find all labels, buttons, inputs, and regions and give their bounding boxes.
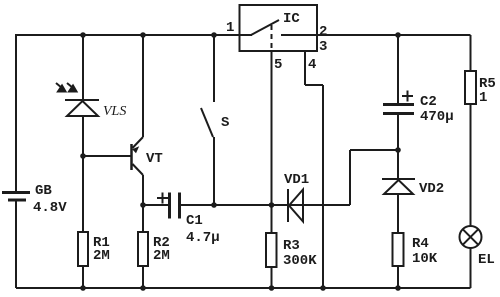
node top rail S	[211, 32, 217, 38]
wire top rail	[16, 34, 252, 36]
svg-text:2: 2	[319, 24, 327, 40]
resistor R3	[266, 233, 277, 267]
svg-text:VD2: VD2	[419, 181, 444, 197]
wire R4 bottom	[397, 266, 399, 288]
wire VLS branch upper	[82, 35, 84, 100]
node pin2 wire C2	[395, 32, 401, 38]
node bottom rail R2	[140, 285, 146, 291]
resistor R5	[465, 71, 476, 104]
wire pin2/3 to right rail	[317, 34, 471, 36]
wire VT base	[83, 155, 131, 157]
transistor VT	[130, 144, 133, 170]
svg-text:4.8V: 4.8V	[33, 200, 67, 216]
capacitor C2	[383, 105, 414, 114]
svg-text:C1: C1	[186, 213, 203, 229]
svg-text:4: 4	[308, 57, 316, 73]
wire VT emitter vertical	[142, 35, 144, 137]
node top rail VT	[140, 32, 146, 38]
wire right rail upper	[470, 35, 472, 71]
wire right rail middle	[470, 104, 472, 226]
VLS light arrows	[56, 83, 77, 92]
wire R1 bottom	[82, 266, 84, 288]
svg-text:C2: C2	[420, 94, 437, 110]
node C2 bottom	[395, 147, 401, 153]
svg-text:10K: 10K	[412, 251, 438, 267]
svg-text:2M: 2M	[93, 248, 110, 264]
svg-text:VD1: VD1	[284, 172, 309, 188]
svg-text:R3: R3	[283, 238, 300, 254]
wire bottom rail	[16, 287, 471, 289]
svg-text:5: 5	[274, 57, 282, 73]
wire C2 top	[397, 35, 399, 103]
IC internal dashed line	[271, 25, 273, 51]
C1 plus sign	[157, 193, 168, 204]
IC internal contact wire	[281, 34, 317, 36]
C2 plus sign	[402, 91, 413, 102]
capacitor C1	[170, 193, 180, 219]
wire IC pin4 down	[304, 51, 306, 85]
wire VT collector diagonal	[133, 164, 144, 175]
node S bottom	[211, 202, 217, 208]
resistor R2	[138, 232, 148, 266]
wire R3 bottom	[271, 267, 273, 288]
wire R2 bottom	[142, 266, 144, 288]
svg-text:1: 1	[226, 20, 234, 36]
svg-text:470µ: 470µ	[420, 109, 454, 125]
IC internal switch arm	[251, 20, 279, 35]
wire VLS branch lower to R1	[82, 116, 84, 232]
wire switch S top	[213, 35, 215, 102]
resistor R4	[393, 233, 404, 266]
node R3 top	[269, 202, 275, 208]
node bottom rail R3	[269, 285, 275, 291]
node base junction	[80, 153, 86, 159]
resistor R1	[78, 232, 88, 266]
svg-text:IC: IC	[283, 11, 300, 27]
node C1 left	[140, 202, 146, 208]
photodiode VLS	[65, 100, 99, 116]
node bottom rail R4	[395, 285, 401, 291]
svg-text:R4: R4	[412, 236, 429, 252]
diode VD2	[382, 179, 415, 194]
wire pin4 horizontal	[305, 84, 323, 86]
IC box U1	[240, 5, 318, 51]
wire VD2 to R4	[397, 194, 399, 233]
switch S	[201, 108, 213, 137]
node top rail VLS	[80, 32, 86, 38]
svg-text:VLS: VLS	[103, 104, 126, 119]
wire C2 bottom to VD2	[397, 115, 399, 179]
wire left rail lower	[15, 201, 17, 288]
wire switch S bottom	[213, 137, 215, 205]
wire left rail upper	[15, 34, 17, 191]
wire C1 right to VD1 to corner	[180, 204, 350, 206]
svg-text:3: 3	[319, 39, 327, 55]
svg-text:S: S	[221, 115, 229, 131]
svg-text:GB: GB	[35, 183, 52, 199]
wire to C2 node	[350, 149, 398, 151]
wire corner up	[349, 150, 351, 205]
svg-text:2M: 2M	[153, 248, 170, 264]
wire right rail lower	[470, 248, 472, 288]
svg-text:300K: 300K	[283, 253, 317, 269]
lamp EL	[460, 226, 482, 248]
wire pin4 vertical to bottom rail	[322, 85, 324, 288]
node bottom rail pin4	[320, 285, 326, 291]
svg-text:EL: EL	[478, 252, 495, 268]
svg-text:4.7µ: 4.7µ	[186, 230, 220, 246]
VT emitter arrowhead	[132, 146, 139, 153]
diode VD1	[288, 189, 303, 222]
wire IC pin5 down to R3	[271, 51, 273, 232]
node bottom rail R1	[80, 285, 86, 291]
wire VT collector vertical to R2	[142, 175, 144, 232]
wire C1 left	[143, 204, 168, 206]
battery GB	[2, 193, 30, 201]
wire VT emitter diagonal	[133, 137, 144, 148]
svg-text:VT: VT	[146, 151, 163, 167]
svg-text:1: 1	[479, 90, 487, 106]
